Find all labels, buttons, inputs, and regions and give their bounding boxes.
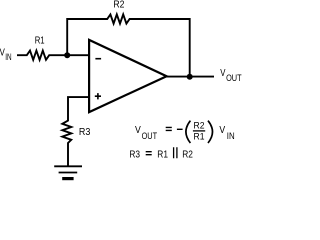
svg-text:R3: R3 (129, 149, 140, 160)
svg-text:R2: R2 (194, 121, 205, 131)
svg-text:R2: R2 (113, 0, 124, 11)
svg-text:V: V (220, 68, 225, 79)
svg-text:IN: IN (227, 131, 235, 141)
svg-text:R1: R1 (157, 149, 168, 160)
svg-text:R3: R3 (79, 127, 91, 138)
svg-text:OUT: OUT (226, 73, 242, 83)
svg-text:OUT: OUT (142, 131, 158, 141)
svg-text:R1: R1 (194, 132, 205, 142)
svg-text:V: V (219, 125, 225, 136)
svg-text:R1: R1 (35, 36, 45, 47)
svg-text:IN: IN (5, 52, 11, 62)
svg-text:V: V (135, 125, 141, 136)
svg-text:R2: R2 (182, 149, 193, 160)
